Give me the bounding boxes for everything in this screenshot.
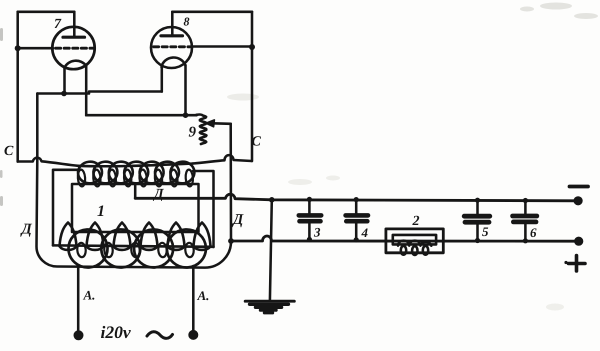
ground wire	[270, 200, 272, 301]
junction C6 top	[523, 198, 528, 203]
tube V8 base legs	[161, 67, 164, 92]
svg-text:9: 9	[188, 125, 196, 141]
plus sign	[569, 256, 586, 272]
tube V7 envelope	[52, 27, 94, 69]
svg-text:7: 7	[54, 17, 62, 32]
choke box 2 inner	[393, 235, 436, 245]
junction filament wire 1	[61, 91, 67, 97]
tube V7 cathode dome	[65, 61, 87, 68]
primary winding row3 big loops	[68, 229, 207, 269]
junction V8 grid-plate node	[249, 44, 255, 50]
wiper arrowhead	[206, 120, 215, 127]
filament wire 1	[37, 92, 162, 94]
minus bar	[570, 185, 589, 189]
junction C3 bottom	[307, 237, 312, 242]
middle winding right return	[193, 171, 214, 247]
tube V8 envelope	[151, 27, 192, 68]
tube V7 grid dashed	[56, 47, 94, 50]
outer filament curve to + node	[37, 159, 232, 268]
wiper vertical to + node	[229, 124, 232, 241]
svg-text:A.: A.	[196, 288, 209, 303]
capacitor C3	[308, 199, 311, 239]
svg-text:Д: Д	[19, 221, 32, 237]
junction C4 top	[354, 197, 359, 202]
svg-text:Д: Д	[231, 212, 244, 228]
rheostat 9 wiper line	[213, 122, 231, 125]
terminal minus output	[574, 196, 583, 205]
C line right with hop	[193, 155, 252, 163]
filament wire 2	[86, 114, 196, 117]
center tap line to minus bus with hop	[135, 194, 578, 201]
capacitor C6	[524, 201, 527, 241]
rheostat 9 zigzag	[197, 114, 207, 144]
svg-text:5: 5	[482, 224, 489, 239]
tube V7 base legs	[63, 68, 66, 94]
svg-text:1: 1	[97, 203, 105, 220]
svg-text:4: 4	[360, 225, 368, 240]
choke box 2 outer	[386, 229, 443, 253]
tube V8 cathode dome	[162, 58, 186, 67]
svg-text:Д: Д	[152, 187, 164, 202]
junction plus node	[228, 238, 234, 244]
tube V8 grid dashed	[154, 45, 191, 48]
wire: V8 plate to right bus	[172, 11, 252, 14]
junction C4 bottom	[354, 237, 359, 242]
wire: V8 grid to right bus	[192, 45, 252, 48]
svg-text:8: 8	[183, 15, 189, 29]
svg-text:C: C	[251, 135, 261, 150]
row1 hanging ovals	[77, 169, 193, 186]
junction C3 top	[307, 197, 312, 202]
terminal plus output	[574, 237, 583, 246]
choke coil	[398, 241, 431, 246]
ground symbol	[245, 300, 294, 303]
filament winding row2 teardrops	[60, 223, 211, 250]
C line left with hop	[18, 158, 78, 166]
svg-text:A.: A.	[82, 287, 95, 302]
row2 hanging ovals	[77, 243, 194, 258]
svg-text:i20v: i20v	[100, 322, 130, 342]
terminal 120v left	[74, 330, 84, 340]
plus bus with hop over ground	[231, 236, 579, 241]
tube V7 plate	[63, 36, 85, 39]
terminal 120v right	[188, 330, 198, 340]
tube V8 plate	[161, 34, 183, 37]
left bus vertical C	[16, 12, 19, 162]
junction C5 bottom	[475, 238, 480, 243]
junction filament wire 2	[183, 112, 189, 118]
wire: V7 plate to left bus	[18, 11, 75, 14]
junction ground tap on minus bus	[269, 197, 275, 203]
tube V8 plate lead	[171, 12, 174, 36]
junction C5 top	[475, 198, 480, 203]
capacitor C4	[355, 200, 358, 240]
center tap drop	[134, 184, 137, 198]
right bus vertical C	[251, 12, 254, 161]
ink speck near plus	[564, 261, 567, 264]
svg-text:C: C	[4, 144, 14, 159]
svg-text:3: 3	[313, 224, 321, 239]
core frame rectangle 1	[72, 184, 199, 232]
wire: V7 grid to left bus	[18, 47, 53, 50]
middle winding baseline	[53, 245, 214, 246]
secondary winding C-C row1 circles	[77, 161, 196, 185]
inner return line top	[53, 170, 78, 246]
svg-text:6: 6	[530, 225, 537, 240]
capacitor C5	[476, 200, 479, 240]
tube V7 plate lead	[73, 12, 76, 37]
120v wire left	[77, 265, 80, 331]
junction C6 bottom	[523, 238, 528, 243]
AC tilde	[147, 332, 173, 339]
junction V7 grid-plate node	[15, 45, 21, 51]
tank wire through winding row1	[78, 164, 193, 167]
svg-text:2: 2	[411, 214, 419, 229]
120v wire right	[192, 266, 195, 330]
filament wire 1 drop	[36, 94, 39, 160]
